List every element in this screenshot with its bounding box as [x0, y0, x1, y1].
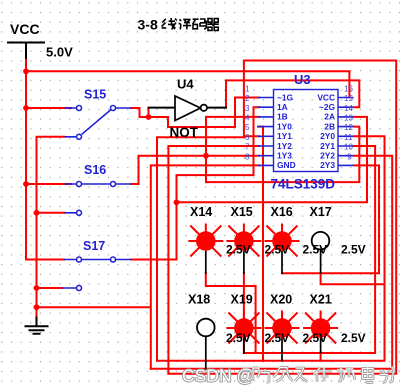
svg-text:2.5V: 2.5V	[303, 243, 328, 257]
svg-text:2.5V: 2.5V	[265, 243, 290, 257]
inverter U4	[175, 96, 207, 121]
lamp X17 (off probe)	[312, 232, 330, 250]
junction VCC rail at S16	[23, 181, 29, 187]
wire S16 branch under U3 to pin13 2B	[206, 127, 359, 183]
lead lamp X16	[281, 252, 283, 274]
value 2.5V X17	[341, 243, 366, 257]
wire X14 lamp route down to X19 row	[206, 273, 256, 353]
svg-text:6: 6	[245, 133, 250, 142]
svg-text:7: 7	[245, 143, 250, 152]
svg-text:S15: S15	[84, 88, 106, 102]
label lamp X20	[270, 293, 292, 307]
svg-text:S17: S17	[83, 239, 105, 253]
label lamp X17	[310, 205, 332, 219]
wire VCC rail corner to S17 top throw	[26, 259, 64, 261]
wire X15 lamp drop behind X19	[243, 273, 245, 353]
label U3	[294, 72, 311, 87]
power symbol VCC bar and stem	[8, 43, 44, 59]
svg-text:1B: 1B	[277, 112, 288, 122]
svg-text:X14: X14	[190, 205, 212, 219]
wire middle bundle riser row5 to X21 row and U3 pin12 2Y0	[157, 136, 385, 360]
switch S15	[65, 106, 132, 140]
svg-text:1Y2: 1Y2	[277, 141, 292, 151]
wire bottom bus to U3 pin10 2Y2 with X18 tap	[151, 156, 392, 369]
label lamp X15	[231, 205, 253, 219]
value 2.5V X14	[226, 243, 251, 257]
lamp X18 (off probe)	[197, 319, 215, 337]
lamp X20 (lit probe)	[265, 311, 300, 344]
wire NOT gate input (black)	[149, 107, 176, 109]
lead lamp X15	[243, 252, 245, 274]
svg-text:2Y2: 2Y2	[320, 151, 335, 161]
label VCC	[10, 21, 40, 37]
U3 pin names right column	[317, 92, 335, 170]
svg-text:X20: X20	[270, 293, 292, 307]
wire VCC rail to S15 top throw	[26, 107, 71, 109]
svg-text:2B: 2B	[324, 121, 335, 131]
label lamp X19	[231, 293, 253, 307]
U3 pin numbers right 16-9	[344, 84, 353, 161]
junction S17 node 2A branch	[174, 199, 180, 205]
svg-text:2Y1: 2Y1	[320, 141, 335, 151]
svg-text:VCC: VCC	[10, 21, 40, 37]
svg-text:15: 15	[344, 94, 353, 103]
wire U3 pin5 1Y1 big top loop to bottom right	[168, 61, 396, 374]
svg-text:S16: S16	[84, 163, 106, 177]
svg-text:~1G: ~1G	[277, 92, 293, 102]
wire NOT output to U3 pin15 ~2G	[226, 80, 359, 107]
wire ground rail from S15 bottom throw down to ground	[37, 137, 65, 318]
value 2.5V X15	[265, 243, 290, 257]
junction S15 output node	[146, 114, 152, 120]
lamp X14 (lit probe)	[188, 224, 223, 257]
svg-text:3-8: 3-8	[138, 17, 158, 33]
label lamp X21	[310, 293, 332, 307]
junction S16 node at 1Y3 row	[203, 153, 209, 159]
lamp X16 (lit probe)	[265, 224, 300, 257]
svg-text:10: 10	[344, 143, 353, 152]
svg-text:2.5V: 2.5V	[303, 331, 328, 345]
wire S15 pole to NOT input and U3 pin1 ~1G	[131, 98, 259, 128]
watermark chinese glyphs	[253, 367, 393, 383]
IC U3 74LS139D body	[274, 90, 339, 172]
svg-text:9: 9	[347, 152, 352, 161]
lead lamp X14	[205, 252, 207, 274]
svg-text:X19: X19	[231, 293, 253, 307]
svg-text:13: 13	[344, 114, 353, 123]
U3 right pin stubs 16-9	[338, 98, 354, 166]
wire X21 lamp stub to bottom bus	[320, 353, 322, 361]
label lamp X14	[190, 205, 212, 219]
switch S16	[65, 182, 132, 216]
junction VCC rail top	[23, 68, 29, 74]
value 2.5V X18	[226, 331, 251, 345]
svg-text:X18: X18	[188, 293, 210, 307]
svg-text:X21: X21	[310, 293, 332, 307]
junction ground rail at S16	[34, 210, 40, 216]
svg-text:X17: X17	[310, 205, 332, 219]
wire NOT gate output (black)	[207, 107, 227, 109]
label S16	[84, 163, 106, 177]
svg-text:16: 16	[344, 84, 353, 93]
lead lamp X20	[281, 339, 283, 361]
svg-text:1A: 1A	[277, 102, 288, 112]
label NOT	[170, 125, 199, 140]
svg-text:VCC: VCC	[317, 92, 335, 102]
lead lamp X17	[320, 250, 322, 274]
svg-text:X16: X16	[271, 205, 293, 219]
U3 pin numbers left 1-8	[245, 84, 250, 161]
svg-text:U4: U4	[177, 77, 194, 92]
junction ground rail at S17	[34, 285, 40, 291]
lamp X15 (lit probe)	[226, 224, 261, 257]
value 2.5V X20	[303, 331, 328, 345]
U3 pin names left column	[277, 92, 296, 170]
svg-text:8: 8	[245, 152, 250, 161]
label 74LS139D	[271, 177, 336, 192]
label lamp X16	[271, 205, 293, 219]
svg-text:2.5V: 2.5V	[226, 331, 251, 345]
svg-text:3: 3	[245, 104, 250, 113]
svg-text:U3: U3	[294, 72, 311, 87]
svg-text:2: 2	[245, 94, 250, 103]
svg-text:11: 11	[344, 133, 353, 142]
svg-text:5: 5	[245, 123, 250, 132]
svg-text:2Y0: 2Y0	[320, 131, 335, 141]
ground symbol	[26, 318, 48, 334]
label U4	[177, 77, 194, 92]
lead lamp X21	[320, 339, 322, 353]
value 2.5V X19	[265, 331, 290, 345]
label S17	[83, 239, 105, 253]
svg-text:2.5V: 2.5V	[341, 331, 366, 345]
wire U3 pin6 1Y2 down middle bundle to bottom bus	[168, 146, 259, 374]
svg-text:12: 12	[344, 123, 353, 132]
wire S17 bottom throw to ground rail	[37, 287, 63, 289]
svg-text:X15: X15	[231, 205, 253, 219]
svg-text:2A: 2A	[324, 112, 335, 122]
wire VCC net: stem, rail and feed to U3 pin16	[26, 58, 349, 260]
value 2.5V X16	[303, 243, 328, 257]
wire S16 pole riser to 1B and 1Y3 row	[131, 117, 259, 184]
lamp X19 (lit probe)	[226, 311, 261, 344]
wire U3 pin11 2Y1 to X19 row	[244, 146, 375, 353]
svg-text:GND: GND	[277, 160, 296, 170]
svg-text:4: 4	[245, 114, 250, 123]
svg-text:74LS139D: 74LS139D	[271, 177, 336, 192]
wire VCC rail to S16 top throw	[26, 183, 71, 185]
svg-text:2.5V: 2.5V	[226, 243, 251, 257]
svg-text:5.0V: 5.0V	[46, 45, 73, 60]
svg-text:1Y3: 1Y3	[277, 151, 292, 161]
junction VCC rail at S15	[23, 105, 29, 111]
svg-text:~2G: ~2G	[319, 102, 335, 112]
lead lamp X18	[205, 337, 207, 369]
svg-text:NOT: NOT	[170, 125, 199, 140]
wire S16 bottom throw to ground rail	[37, 212, 65, 214]
svg-text:14: 14	[344, 104, 353, 113]
wire U3 pin4 1Y0 long drop	[258, 127, 263, 361]
junction ground rail at ground symbol	[34, 304, 40, 310]
wire S17 branch under U3 to pin14 2A	[177, 117, 368, 202]
wire ground net to U3 pin8 GND	[37, 165, 260, 368]
svg-text:2.5V: 2.5V	[265, 331, 290, 345]
svg-text:1: 1	[245, 84, 250, 93]
value label 5.0V	[46, 45, 73, 60]
switch S17	[62, 257, 131, 291]
label S15	[84, 88, 106, 102]
lamp X21 (lit probe)	[303, 311, 338, 344]
wire S17 pole riser to U3 pin2 1A	[131, 107, 259, 259]
svg-text:2.5V: 2.5V	[341, 243, 366, 257]
label lamp X18	[188, 293, 210, 307]
svg-text:CSDN @: CSDN @	[182, 366, 254, 386]
U3 left pin stubs 1-8	[258, 98, 274, 166]
wire X17 lamp link to 2Y0 column	[321, 273, 385, 284]
title 3-8 line decoder	[138, 17, 219, 33]
lead lamp X19	[243, 339, 245, 354]
svg-text:1Y1: 1Y1	[277, 131, 292, 141]
value 2.5V X21	[341, 331, 366, 345]
watermark CSDN @ text	[182, 366, 254, 386]
wire U3 pin9 2Y3 to X16 lamp	[282, 165, 379, 273]
svg-text:1Y0: 1Y0	[277, 121, 292, 131]
svg-text:2Y3: 2Y3	[320, 160, 335, 170]
